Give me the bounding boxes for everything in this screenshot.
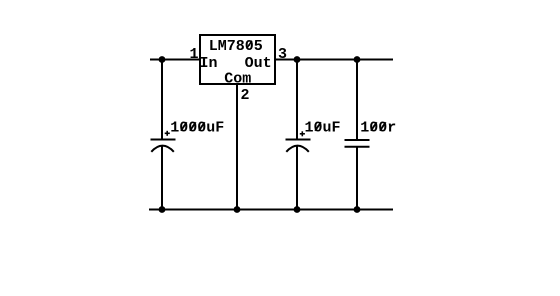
wire R1 lower lead: [356, 146, 358, 210]
node junction dot bottom R1: [354, 206, 361, 213]
C2 value label 10uF: [305, 120, 341, 137]
U1 label LM7805: [209, 38, 263, 55]
wire C1 lower lead: [161, 146, 163, 210]
wire R1 upper lead: [356, 59, 358, 141]
node junction dot bottom C1: [159, 206, 166, 213]
node junction dot bottom Com: [234, 206, 241, 213]
wire Com lead pin 2: [236, 84, 238, 210]
wire C2 upper lead: [296, 59, 298, 140]
wire top rail left segment: [150, 59, 199, 61]
capacitor C2 curved plate: [286, 146, 309, 152]
svg-text:1: 1: [190, 46, 199, 63]
C2 polarity plus: [300, 131, 305, 136]
svg-text:In: In: [200, 55, 218, 72]
svg-text:LM7805: LM7805: [209, 38, 263, 55]
svg-text:3: 3: [278, 46, 287, 63]
op-amp U1 LM7805 regulator body: [200, 35, 275, 84]
node junction dot top C2: [294, 56, 301, 63]
wire C2 lower lead: [296, 146, 298, 210]
node junction dot bottom C2: [294, 206, 301, 213]
svg-text:10uF: 10uF: [305, 120, 341, 137]
resistor R1 top plate: [345, 139, 370, 141]
svg-text:2: 2: [241, 87, 250, 104]
node junction dot top C1: [159, 56, 166, 63]
C1 polarity plus: [165, 131, 170, 136]
capacitor C1 top plate: [151, 139, 176, 141]
wire bottom rail (ground return): [149, 209, 393, 211]
node junction dot top R1: [354, 56, 361, 63]
C1 value label 1000uF: [170, 120, 224, 137]
svg-text:1000uF: 1000uF: [170, 120, 224, 137]
R1 value label 100r: [360, 120, 396, 137]
wire top rail right segment: [276, 59, 393, 61]
capacitor C2 top plate: [286, 139, 311, 141]
resistor R1 bottom plate: [345, 146, 370, 148]
wire C1 upper lead: [161, 59, 163, 140]
svg-text:100r: 100r: [360, 120, 396, 137]
capacitor C1 curved plate: [151, 146, 174, 152]
